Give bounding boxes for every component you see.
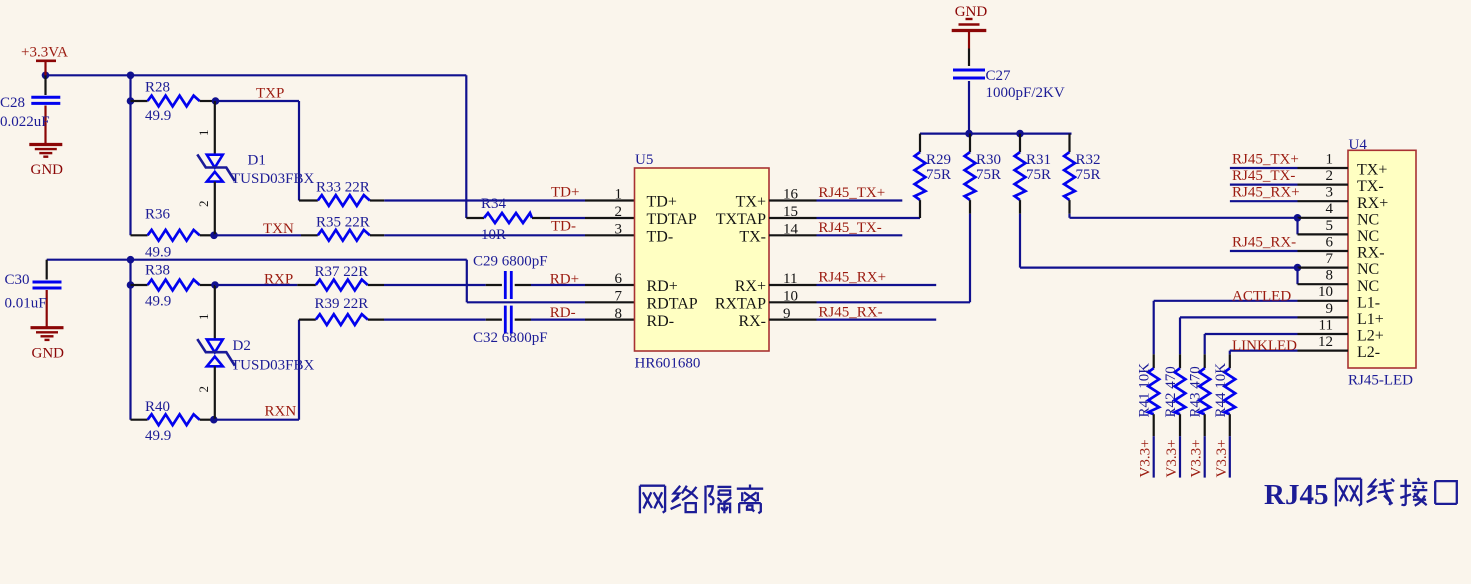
svg-text:L1-: L1- xyxy=(1357,294,1380,311)
svg-text:V3.3+: V3.3+ xyxy=(1138,439,1154,477)
svg-text:TX+: TX+ xyxy=(1357,162,1387,179)
svg-text:RX+: RX+ xyxy=(735,278,766,295)
svg-text:NC: NC xyxy=(1357,211,1379,228)
svg-text:GND: GND xyxy=(955,4,988,20)
svg-text:RXTAP: RXTAP xyxy=(715,296,766,313)
svg-text:R28: R28 xyxy=(145,80,170,96)
svg-text:49.9: 49.9 xyxy=(145,108,171,124)
svg-text:D2: D2 xyxy=(233,338,251,354)
svg-text:TX-: TX- xyxy=(739,229,766,246)
svg-text:2: 2 xyxy=(1326,168,1334,184)
svg-text:LINKLED: LINKLED xyxy=(1232,338,1297,354)
svg-text:R44 10K: R44 10K xyxy=(1213,363,1229,418)
svg-text:R41 10K: R41 10K xyxy=(1137,363,1153,418)
svg-text:RJ45_TX-: RJ45_TX- xyxy=(1232,168,1295,184)
svg-text:C29 6800pF: C29 6800pF xyxy=(473,254,548,270)
svg-text:V3.3+: V3.3+ xyxy=(1164,439,1180,477)
svg-text:NC: NC xyxy=(1357,261,1379,278)
svg-text:R35 22R: R35 22R xyxy=(316,215,370,231)
svg-text:1: 1 xyxy=(1326,151,1334,167)
svg-text:14: 14 xyxy=(783,222,799,238)
svg-text:0.022uF: 0.022uF xyxy=(0,114,50,130)
svg-text:R38: R38 xyxy=(145,263,170,279)
svg-text:RJ45_TX+: RJ45_TX+ xyxy=(1232,151,1299,167)
svg-text:4: 4 xyxy=(1326,201,1334,217)
svg-text:RJ45_TX+: RJ45_TX+ xyxy=(818,185,885,201)
svg-text:C30: C30 xyxy=(5,272,30,288)
svg-text:RDTAP: RDTAP xyxy=(647,296,698,313)
svg-text:TD+: TD+ xyxy=(551,185,579,201)
svg-text:RX+: RX+ xyxy=(1357,195,1388,212)
svg-text:TD+: TD+ xyxy=(647,194,677,211)
svg-text:RJ45_RX-: RJ45_RX- xyxy=(1232,234,1296,250)
svg-text:TUSD03FBX: TUSD03FBX xyxy=(231,358,315,374)
svg-text:R30: R30 xyxy=(976,152,1001,168)
svg-text:V3.3+: V3.3+ xyxy=(1214,439,1230,477)
svg-text:7: 7 xyxy=(1326,251,1334,267)
svg-text:TXP: TXP xyxy=(256,86,284,102)
svg-text:2: 2 xyxy=(196,201,211,208)
svg-text:C32 6800pF: C32 6800pF xyxy=(473,330,548,346)
svg-text:R29: R29 xyxy=(926,152,951,168)
svg-text:1: 1 xyxy=(196,130,211,137)
svg-text:V3.3+: V3.3+ xyxy=(1189,439,1205,477)
svg-text:16: 16 xyxy=(783,187,799,203)
svg-text:D1: D1 xyxy=(248,153,266,169)
svg-text:15: 15 xyxy=(783,204,798,220)
svg-text:11: 11 xyxy=(1319,317,1333,333)
svg-text:7: 7 xyxy=(615,289,623,305)
svg-text:R33 22R: R33 22R xyxy=(316,180,370,196)
svg-text:RJ45: RJ45 xyxy=(1264,479,1328,511)
svg-text:TX-: TX- xyxy=(1357,178,1384,195)
svg-text:RXN: RXN xyxy=(265,404,297,420)
svg-text:RD+: RD+ xyxy=(647,278,678,295)
svg-text:10: 10 xyxy=(1318,284,1333,300)
svg-text:U5: U5 xyxy=(635,152,653,168)
svg-text:49.9: 49.9 xyxy=(145,428,171,444)
svg-text:2: 2 xyxy=(196,386,211,393)
svg-text:R40: R40 xyxy=(145,399,170,415)
svg-text:RJ45-LED: RJ45-LED xyxy=(1348,373,1413,389)
svg-text:RJ45_RX-: RJ45_RX- xyxy=(818,304,882,320)
svg-text:R37 22R: R37 22R xyxy=(315,264,369,280)
svg-text:TXN: TXN xyxy=(263,221,294,237)
svg-text:TUSD03FBX: TUSD03FBX xyxy=(231,171,315,187)
svg-text:10: 10 xyxy=(783,289,798,305)
svg-text:10R: 10R xyxy=(481,227,506,243)
svg-text:3: 3 xyxy=(615,222,623,238)
svg-text:TDTAP: TDTAP xyxy=(647,211,697,228)
svg-text:12: 12 xyxy=(1318,334,1333,350)
svg-text:L1+: L1+ xyxy=(1357,311,1384,328)
svg-text:RX-: RX- xyxy=(738,313,766,330)
svg-text:NC: NC xyxy=(1357,278,1379,295)
svg-text:L2-: L2- xyxy=(1357,344,1380,361)
svg-text:3: 3 xyxy=(1326,185,1334,201)
svg-text:6: 6 xyxy=(615,271,623,287)
svg-text:RJ45_RX+: RJ45_RX+ xyxy=(1232,185,1300,201)
svg-text:NC: NC xyxy=(1357,228,1379,245)
svg-text:L2+: L2+ xyxy=(1357,328,1384,345)
svg-text:C27: C27 xyxy=(986,68,1012,84)
svg-text:9: 9 xyxy=(783,306,791,322)
svg-text:49.9: 49.9 xyxy=(145,294,171,310)
svg-text:TD-: TD- xyxy=(647,229,674,246)
svg-text:R31: R31 xyxy=(1026,152,1051,168)
svg-text:RJ45_RX+: RJ45_RX+ xyxy=(818,270,886,286)
svg-text:RXP: RXP xyxy=(264,272,293,288)
svg-text:R43 470: R43 470 xyxy=(1188,366,1204,417)
svg-text:TXTAP: TXTAP xyxy=(716,211,766,228)
svg-text:GND: GND xyxy=(31,162,64,178)
svg-text:6: 6 xyxy=(1326,234,1334,250)
svg-text:RD-: RD- xyxy=(550,305,576,321)
svg-text:75R: 75R xyxy=(976,167,1001,183)
svg-text:R32: R32 xyxy=(1076,152,1101,168)
svg-text:75R: 75R xyxy=(926,167,951,183)
svg-text:ACTLED: ACTLED xyxy=(1232,289,1291,305)
svg-text:GND: GND xyxy=(32,346,65,362)
svg-text:C28: C28 xyxy=(0,95,25,111)
svg-text:75R: 75R xyxy=(1026,167,1051,183)
svg-text:11: 11 xyxy=(783,271,797,287)
svg-text:+3.3VA: +3.3VA xyxy=(21,45,68,61)
svg-text:U4: U4 xyxy=(1349,137,1368,153)
svg-text:R34: R34 xyxy=(481,196,507,212)
svg-text:RJ45_TX-: RJ45_TX- xyxy=(818,220,881,236)
svg-text:TD-: TD- xyxy=(551,219,576,235)
svg-text:0.01uF: 0.01uF xyxy=(5,296,47,312)
svg-text:R36: R36 xyxy=(145,207,171,223)
svg-text:1: 1 xyxy=(615,187,623,203)
svg-text:R39 22R: R39 22R xyxy=(315,296,369,312)
svg-text:RD+: RD+ xyxy=(550,272,579,288)
svg-text:1: 1 xyxy=(196,314,211,321)
svg-text:9: 9 xyxy=(1326,301,1334,317)
svg-text:8: 8 xyxy=(1326,268,1334,284)
svg-text:TX+: TX+ xyxy=(736,194,766,211)
svg-text:RD-: RD- xyxy=(647,313,675,330)
svg-text:49.9: 49.9 xyxy=(145,245,171,261)
svg-text:8: 8 xyxy=(615,306,623,322)
svg-text:RX-: RX- xyxy=(1357,245,1385,262)
svg-text:R42 470: R42 470 xyxy=(1163,366,1179,417)
svg-text:75R: 75R xyxy=(1076,167,1101,183)
svg-text:5: 5 xyxy=(1326,218,1334,234)
svg-text:1000pF/2KV: 1000pF/2KV xyxy=(986,85,1065,101)
svg-text:HR601680: HR601680 xyxy=(635,356,701,372)
svg-text:2: 2 xyxy=(615,204,623,220)
